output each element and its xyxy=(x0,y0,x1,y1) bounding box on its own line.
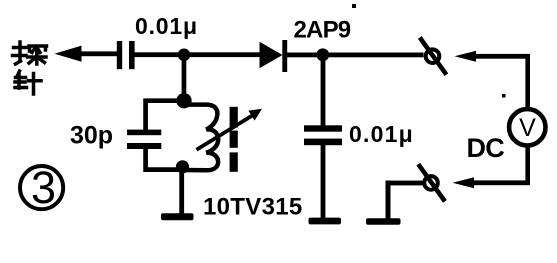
inductor L1 (winding) xyxy=(184,105,218,171)
speck (scan artifact near DC) xyxy=(502,94,506,98)
capacitor C3 30p (bottom plate) xyxy=(127,143,161,149)
diode D1 2AP9 (triangle) xyxy=(260,42,283,68)
wire: J2 left and down to ground xyxy=(386,181,423,186)
test jack J1 (circle) xyxy=(426,49,440,63)
node: tank top xyxy=(176,93,191,108)
diode D1 2AP9 (cathode bar) xyxy=(282,40,287,72)
capacitor C2 0.01u (bottom plate) xyxy=(304,139,342,146)
capacitor C1 0.01u (coupling, left plate) xyxy=(117,41,122,69)
ground (tank) xyxy=(161,213,194,220)
probe label 针 xyxy=(15,71,41,94)
test jack J2 (slash) xyxy=(418,164,445,201)
capacitor C1 0.01u (right plate) xyxy=(129,41,135,69)
test jack J2 (circle) xyxy=(424,176,438,190)
capacitor C2 0.01u (top plate) xyxy=(304,125,342,131)
node: junction A (C1 / tank top feed) xyxy=(178,49,191,62)
svg-text:0.01μ: 0.01μ xyxy=(349,121,414,147)
svg-text:0.01μ: 0.01μ xyxy=(135,13,198,39)
probe label 探 xyxy=(13,42,47,64)
voltmeter M1 (body) xyxy=(509,109,545,145)
wire: C2 to ground xyxy=(321,145,326,218)
ground (under C2) xyxy=(309,218,342,225)
wire with arrow: voltmeter + lead to J1 xyxy=(455,51,477,62)
node: tank bottom xyxy=(176,160,189,173)
svg-text:3: 3 xyxy=(31,162,56,213)
ground (right, under J2 branch) xyxy=(366,218,401,224)
svg-text:2AP9: 2AP9 xyxy=(294,17,351,44)
wire: tank bottom to ground xyxy=(179,170,184,214)
speck (scan artifact above 2AP9) xyxy=(352,4,356,8)
variable adjustment arrow through L1 xyxy=(197,115,254,150)
wire: tank top to 30p branch xyxy=(146,101,184,130)
wire: C1 to diode anode xyxy=(135,52,261,57)
capacitor C3 30p (top plate) xyxy=(127,130,161,136)
svg-text:V: V xyxy=(519,114,536,142)
svg-text:30p: 30p xyxy=(70,122,113,150)
svg-text:10TV315: 10TV315 xyxy=(203,194,303,221)
wire: junction A down to tank xyxy=(182,55,187,102)
wire: junction B down to C2 xyxy=(321,55,326,126)
figure number 3 (circle) xyxy=(20,166,63,209)
wire: 30p bottom to tank bottom xyxy=(146,149,183,170)
wire: probe output arrow (left) xyxy=(55,46,82,62)
test jack J1 (slash) xyxy=(420,38,447,75)
inductor core (dashed bar) xyxy=(230,107,238,128)
wire with arrow: voltmeter - lead to J2 xyxy=(525,146,530,185)
wire: diode cathode to test jack J1 xyxy=(287,53,424,58)
svg-text:DC: DC xyxy=(467,133,505,163)
node: junction B (diode cathode / C2 top) xyxy=(316,48,329,61)
